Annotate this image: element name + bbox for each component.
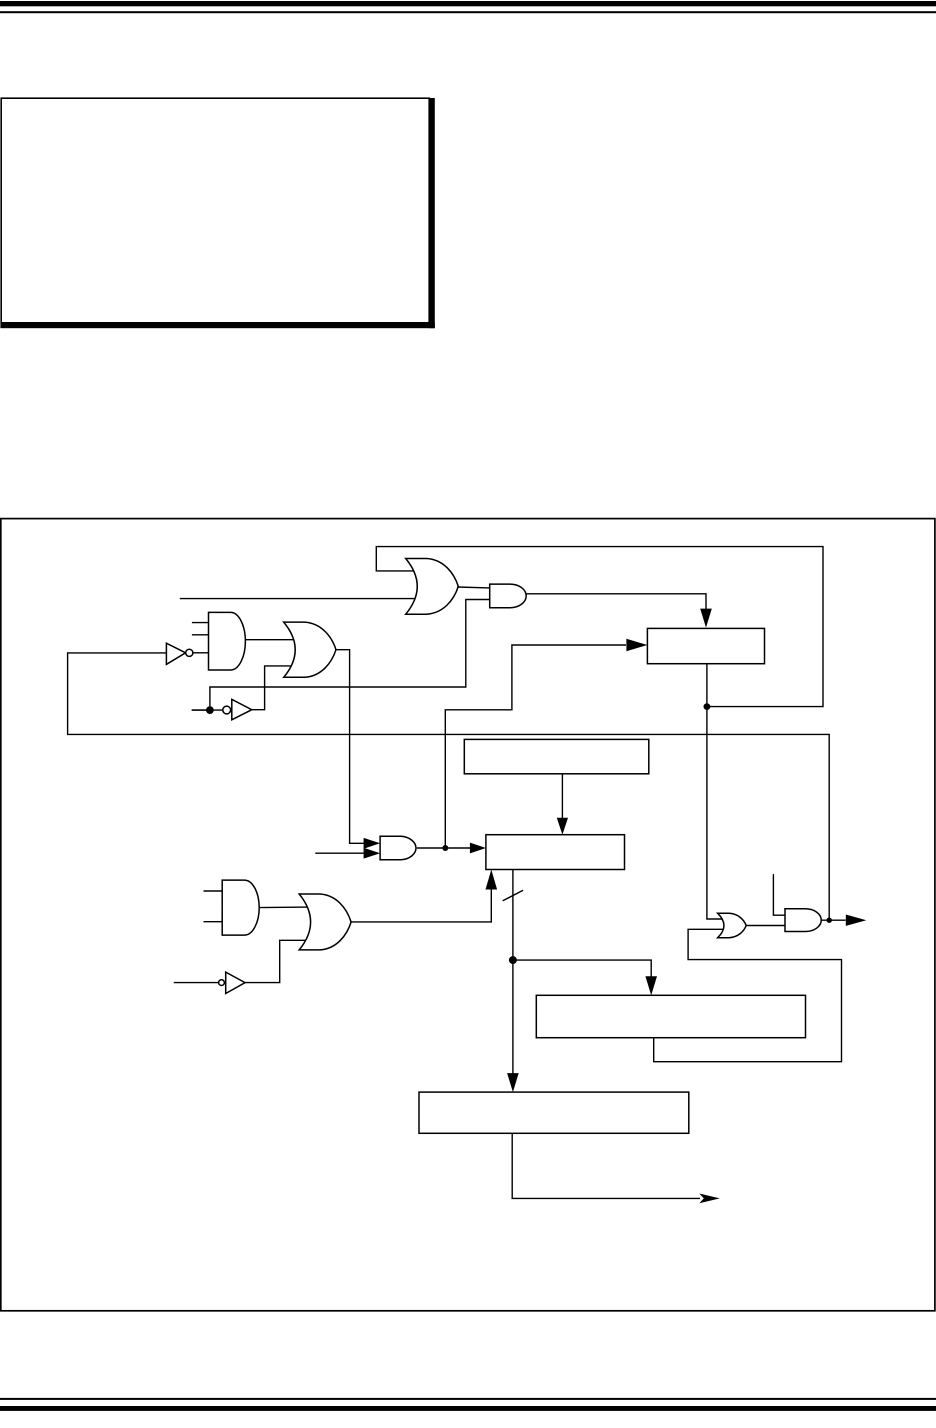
wire: node C up to REG1 left-input path xyxy=(445,645,626,848)
junction node C xyxy=(442,845,448,851)
wire: REG4 bottom loop to OR U10 lower input xyxy=(654,929,842,1061)
wire: AND U12 upper input stub xyxy=(773,874,785,915)
wire: OR U5 output down to AND U7 xyxy=(335,650,364,844)
inverter U11 (input bubble) xyxy=(219,972,245,993)
wire: AND U4 output to OR U5 xyxy=(245,639,310,641)
wire: REG5 bottom to time-out output xyxy=(512,1133,700,1198)
junction node E xyxy=(827,918,832,923)
arrowhead into REG3 bottom (up) xyxy=(486,870,498,890)
wire: node D to REG4 top xyxy=(513,960,651,977)
wire: node B stub xyxy=(192,709,223,711)
wire: REG3 bottom bus down to REG5 xyxy=(512,870,514,1075)
wire: AND U7 output to REG3 xyxy=(417,847,471,849)
wire: OR U1 lower input xyxy=(180,598,424,600)
wire: AND U8 input stub 2 xyxy=(204,921,223,923)
wire: AND U2 lower input from node B xyxy=(192,600,490,711)
register REG3 xyxy=(486,835,625,870)
figure frame xyxy=(1,519,935,1311)
wire: AND U2 output to register REG1 xyxy=(526,594,707,612)
arrowhead into REG1 top xyxy=(700,609,712,628)
arrowhead into REG3 left xyxy=(470,843,486,854)
arrowhead into REG5 top xyxy=(507,1073,519,1092)
wire: AND U12 output xyxy=(821,919,846,921)
wire: AND U7 input 2 stub xyxy=(315,852,364,854)
junction node D xyxy=(509,956,517,964)
wire: OR U1 output to AND U2 input xyxy=(457,586,490,589)
register REG2 xyxy=(464,739,649,773)
wire: OR U9 output up into REG3 bottom xyxy=(350,889,491,922)
or-gate U5 xyxy=(284,622,336,677)
or-gate U10 xyxy=(718,913,747,937)
inverter U3 xyxy=(166,643,193,664)
page footer rule (thin) xyxy=(0,1398,936,1400)
wire: U11 output to OR U9 lower input xyxy=(245,940,318,982)
or-gate U9 xyxy=(299,894,351,950)
and-gate U7 xyxy=(380,836,416,860)
arrowhead into AND U7 input 2 xyxy=(364,848,381,859)
wire: inverter U3 input / feedback line from node E xyxy=(68,653,830,919)
and-gate U8 xyxy=(222,880,259,935)
junction node A xyxy=(704,703,711,710)
page header rule (thick) xyxy=(0,1,936,6)
page footer rule (thick) xyxy=(0,1406,936,1411)
arrowhead into REG1 left xyxy=(626,639,647,651)
wire: OR U10 output to AND U12 xyxy=(745,925,785,927)
or-gate U1 xyxy=(406,559,459,615)
and-gate U12 xyxy=(785,909,821,932)
wire: AND U8 output to OR U9 xyxy=(259,906,322,909)
time-out output arrowhead xyxy=(699,1194,720,1204)
bus width slash xyxy=(503,890,523,901)
wire: inverter U11 input stub xyxy=(174,982,219,984)
wire: feedback from node A to OR U1 top input xyxy=(376,547,823,707)
wire: U3 bubble to AND U4 xyxy=(193,652,209,654)
page header rule (thin) xyxy=(0,11,936,13)
junction node B xyxy=(206,706,214,714)
arrowhead into AND U7 input 1 xyxy=(364,838,381,849)
inverter U6 (input bubble) xyxy=(223,699,252,720)
output arrowhead (reset signal) xyxy=(846,915,867,926)
arrowhead into REG3 top xyxy=(557,818,568,835)
register REG4 xyxy=(536,995,805,1037)
wire: AND U4 input stub 2 xyxy=(192,634,209,636)
wire: REG1 bottom to OR U10 input xyxy=(707,664,728,919)
wire: U6 output to OR U5 lower input xyxy=(252,666,312,710)
wire: AND U4 input stub 1 xyxy=(192,622,209,624)
and-gate U4 (3-input) xyxy=(209,612,246,670)
arrowhead into REG4 top xyxy=(645,976,657,995)
wire: AND U8 input stub 1 xyxy=(204,890,223,892)
register REG1 xyxy=(647,628,764,663)
wire: REG2 bottom to REG3 top xyxy=(561,774,563,819)
note box (empty) xyxy=(0,98,434,328)
register REG5 xyxy=(419,1092,689,1133)
and-gate U2 xyxy=(490,584,527,608)
